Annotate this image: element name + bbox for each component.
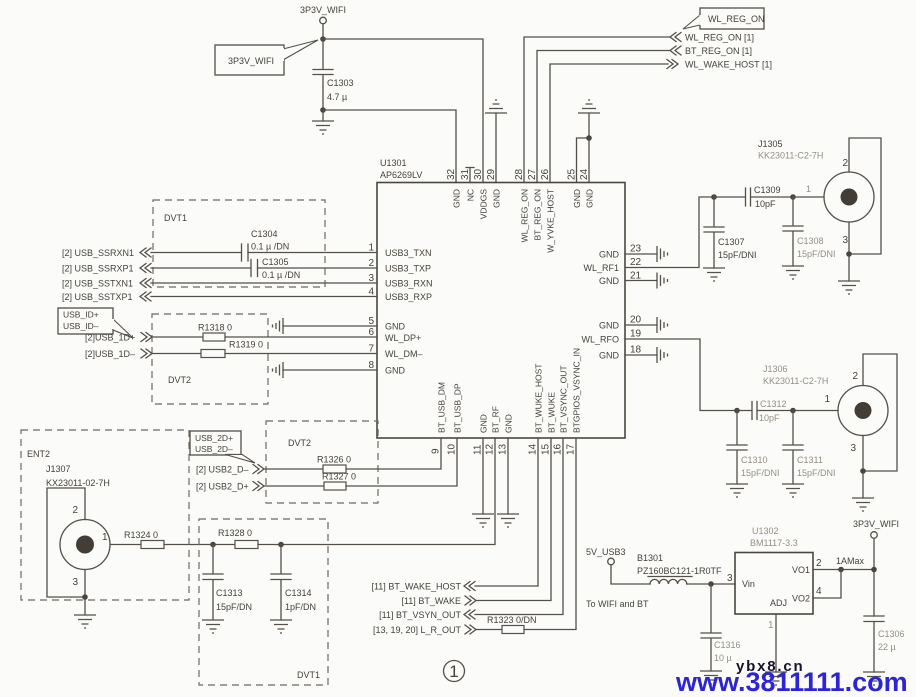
- svg-text:1AMax: 1AMax: [836, 556, 865, 566]
- junction C1313: [210, 542, 216, 548]
- ground J1307: [74, 615, 96, 628]
- svg-text:R1318 0: R1318 0: [198, 323, 232, 333]
- ground J1305: [838, 281, 860, 294]
- svg-text:15pF/DN: 15pF/DN: [216, 602, 252, 612]
- svg-text:U1301: U1301: [380, 158, 407, 168]
- wire row7 right: [225, 353, 377, 355]
- svg-text:[13, 19, 20] L_R_OUT: [13, 19, 20] L_R_OUT: [373, 625, 462, 635]
- ENT2 dashed box: [21, 430, 189, 600]
- svg-text:R1327 0: R1327 0: [322, 472, 356, 482]
- callout 3P3V_WIFI box: [215, 40, 318, 75]
- svg-text:29: 29: [486, 168, 497, 180]
- port arrow USB_SSRXP1: [140, 264, 151, 273]
- junction Vin node: [708, 581, 714, 587]
- DVT1 dashed box bottom: [199, 519, 328, 685]
- ground pin13: [497, 438, 519, 527]
- terminal 5V_USB3: [608, 558, 615, 565]
- svg-text:5V_USB3: 5V_USB3: [586, 547, 626, 557]
- svg-text:DVT2: DVT2: [168, 375, 191, 385]
- svg-text:11: 11: [473, 444, 484, 455]
- svg-text:WL_REG_ON: WL_REG_ON: [708, 14, 765, 24]
- callout USB_2D box: [190, 431, 255, 463]
- port arrow USB_1D-: [141, 349, 152, 358]
- ground pin5: [273, 318, 378, 334]
- ground under C1307: [703, 268, 725, 281]
- port arrow USB2_D+: [253, 482, 264, 491]
- connector J1306: [763, 364, 888, 454]
- capacitor C1310: [727, 411, 780, 485]
- svg-text:U1302: U1302: [752, 526, 779, 536]
- port arrow L_R_OUT: [465, 625, 476, 634]
- svg-text:15pF/DNI: 15pF/DNI: [797, 249, 836, 259]
- svg-text:[2] USB_SSRXN1: [2] USB_SSRXN1: [62, 248, 134, 258]
- junction 3P3V out: [871, 567, 877, 573]
- resistor R1327: [322, 472, 356, 491]
- svg-text:10: 10: [447, 443, 458, 455]
- junction J1306 pin3: [860, 468, 866, 474]
- wire row6 right: [225, 336, 377, 338]
- svg-text:WL_RFO: WL_RFO: [581, 335, 619, 345]
- svg-text:1: 1: [806, 184, 811, 194]
- capacitor C1306: [864, 616, 905, 672]
- svg-text:WL_DP+: WL_DP+: [385, 333, 421, 343]
- svg-text:2: 2: [72, 505, 78, 516]
- ground pin23: [625, 246, 668, 262]
- svg-text:www.3811111.com: www.3811111.com: [675, 667, 908, 697]
- wire 3P3V to pin30: [323, 39, 483, 183]
- svg-text:GND: GND: [599, 250, 620, 260]
- DVT1 dashed box top: [153, 200, 325, 287]
- svg-text:3P3V_WIFI: 3P3V_WIFI: [300, 5, 346, 15]
- wire pin25 jog: [577, 138, 590, 183]
- svg-text:1: 1: [824, 394, 830, 405]
- svg-text:3: 3: [727, 573, 733, 584]
- svg-text:USB_ID–: USB_ID–: [63, 321, 99, 331]
- svg-text:31: 31: [460, 168, 471, 180]
- svg-text:15pF/DNI: 15pF/DNI: [797, 468, 836, 478]
- svg-text:[2]USB_1D–: [2]USB_1D–: [85, 349, 135, 359]
- wire USB2_D- left: [264, 468, 323, 470]
- svg-text:[2] USB2_D–: [2] USB2_D–: [196, 465, 249, 475]
- svg-text:DVT1: DVT1: [164, 213, 187, 223]
- ground above pin24: [578, 100, 600, 113]
- wire 3P3V out vertical: [873, 539, 875, 617]
- svg-text:9: 9: [431, 448, 442, 454]
- svg-text:AP6269LV: AP6269LV: [380, 170, 422, 180]
- svg-text:GND: GND: [572, 189, 582, 208]
- svg-text:C1316: C1316: [714, 640, 741, 650]
- svg-text:GND: GND: [385, 366, 406, 376]
- wire ADJ to ground: [775, 614, 777, 672]
- junction VO1 VO2 tie: [838, 567, 844, 573]
- wire B1301 to Vin: [687, 583, 735, 585]
- svg-text:30: 30: [473, 168, 484, 180]
- svg-text:2: 2: [816, 558, 822, 569]
- svg-text:GND: GND: [585, 189, 595, 208]
- capacitor C1304: [242, 229, 290, 261]
- svg-text:BT_REG_ON [1]: BT_REG_ON [1]: [685, 46, 752, 56]
- wire row6 left: [152, 336, 203, 338]
- svg-text:1: 1: [449, 662, 458, 681]
- port arrow USB_SSRXN1: [140, 248, 151, 257]
- junction pins24-25: [586, 135, 592, 141]
- svg-text:1: 1: [768, 620, 774, 631]
- ground under C1316: [700, 671, 722, 684]
- wire row3: [151, 282, 377, 284]
- svg-text:10pF: 10pF: [759, 413, 780, 423]
- svg-text:VO2: VO2: [792, 594, 810, 604]
- connector J1307: [46, 464, 110, 588]
- wire L_R_OUT left: [476, 629, 502, 631]
- svg-text:1pF/DN: 1pF/DN: [285, 602, 316, 612]
- resistor R1326: [317, 455, 351, 474]
- DVT2 dashed box mid: [152, 314, 268, 404]
- port arrow WL_WAKE_HOST: [667, 60, 678, 69]
- svg-text:18: 18: [630, 345, 642, 356]
- svg-text:28: 28: [514, 168, 525, 180]
- ferrite bead B1301: [637, 553, 722, 584]
- wire row7 left: [152, 353, 201, 355]
- wire 5V_USB3 to B1301: [611, 565, 650, 584]
- junction J1307 pin3: [82, 594, 88, 600]
- svg-text:32: 32: [446, 168, 457, 180]
- junction C1312 left: [734, 408, 740, 414]
- svg-text:23: 23: [630, 244, 642, 255]
- svg-text:R1319 0: R1319 0: [229, 340, 263, 350]
- svg-text:C1312: C1312: [760, 399, 787, 409]
- capacitor C1313: [203, 545, 252, 621]
- svg-text:USB3_TXP: USB3_TXP: [385, 264, 431, 274]
- svg-text:GND: GND: [599, 276, 620, 286]
- ground pin20: [625, 317, 668, 333]
- svg-text:20: 20: [630, 315, 642, 326]
- svg-text:USB_2D+: USB_2D+: [195, 433, 233, 443]
- capacitor C1312: [737, 399, 793, 423]
- svg-text:R1323 0/DN: R1323 0/DN: [487, 615, 537, 625]
- ground J1306: [852, 498, 874, 511]
- capacitor C1314: [271, 545, 316, 621]
- wire to J1306 pin1: [793, 410, 838, 412]
- svg-text:C1309: C1309: [754, 185, 781, 195]
- svg-text:VDDGS: VDDGS: [479, 189, 489, 220]
- svg-text:[11] BT_VSYN_OUT: [11] BT_VSYN_OUT: [379, 610, 461, 620]
- svg-text:NC: NC: [466, 189, 476, 201]
- ground under C1311: [782, 484, 804, 497]
- svg-text:15: 15: [541, 443, 552, 455]
- svg-text:26: 26: [540, 168, 551, 180]
- wire pin28 WL_REG_ON: [524, 37, 670, 183]
- wire pin12 BT_RF: [281, 438, 495, 545]
- wire pin26 WL_WAKE_HOST: [550, 64, 668, 183]
- svg-text:2: 2: [852, 371, 858, 382]
- svg-text:J1305: J1305: [758, 139, 783, 149]
- regulator U1302: [727, 526, 822, 631]
- junction A: [320, 36, 326, 42]
- svg-text:0.1 µ /DN: 0.1 µ /DN: [262, 270, 300, 280]
- wire gnd to pin32: [323, 110, 456, 183]
- svg-text:BTGPIOS_VSYNC_IN: BTGPIOS_VSYNC_IN: [572, 348, 582, 433]
- wire USB2_D- to pin9: [346, 438, 441, 469]
- wire pin27 BT_REG_ON: [537, 51, 670, 183]
- wire BT_WAKE_HOST to pin14: [475, 438, 538, 586]
- port arrow BT_WAKE: [465, 596, 476, 605]
- svg-text:R1324 0: R1324 0: [124, 530, 158, 540]
- wire R1328 to junction: [258, 544, 281, 546]
- port arrow USB_SSTXP1: [140, 292, 151, 301]
- wire BT_WAKE to pin15: [476, 438, 551, 601]
- svg-text:To WIFI and BT: To WIFI and BT: [586, 599, 649, 609]
- junction B: [320, 107, 326, 113]
- svg-text:25: 25: [567, 168, 578, 180]
- svg-text:BT_VSYNC_OUT: BT_VSYNC_OUT: [559, 365, 569, 433]
- svg-text:BT_WUKE_HOST: BT_WUKE_HOST: [534, 364, 544, 433]
- svg-text:10pF: 10pF: [755, 199, 776, 209]
- svg-text:2: 2: [842, 158, 848, 169]
- wire J1305 pin2 loop: [849, 138, 881, 254]
- svg-text:USB3_RXP: USB3_RXP: [385, 292, 432, 302]
- svg-text:C1308: C1308: [797, 236, 824, 246]
- svg-text:24: 24: [579, 168, 590, 180]
- svg-text:GND: GND: [599, 321, 620, 331]
- ground pin18: [625, 347, 668, 363]
- wire row4: [151, 296, 377, 298]
- svg-text:Vin: Vin: [742, 579, 755, 589]
- svg-text:4: 4: [816, 586, 822, 597]
- svg-text:GND: GND: [479, 414, 489, 433]
- svg-text:15pF/DNI: 15pF/DNI: [718, 250, 757, 260]
- svg-text:[2] USB_SSTXN1: [2] USB_SSTXN1: [62, 279, 133, 289]
- svg-text:1: 1: [102, 532, 108, 543]
- svg-text:C1306: C1306: [878, 629, 905, 639]
- wire R1323 to pin17: [524, 438, 576, 630]
- svg-text:C1311: C1311: [797, 455, 823, 465]
- junction C1309 right: [790, 194, 796, 200]
- connector J1305: [758, 139, 874, 246]
- wire row1 right: [248, 252, 377, 254]
- svg-text:BT_RF: BT_RF: [491, 406, 501, 433]
- svg-text:C1303: C1303: [327, 78, 354, 88]
- junction C1309 left: [711, 194, 717, 200]
- ground under C1308: [782, 266, 804, 279]
- port arrow BT_REG_ON: [670, 46, 681, 55]
- capacitor C1307: [704, 197, 757, 268]
- svg-text:C1304: C1304: [251, 229, 278, 239]
- wire BT_VSYN_OUT to pin16: [475, 438, 563, 615]
- capacitor C1316: [701, 584, 741, 671]
- wire J1307 pin2 loop: [47, 488, 85, 597]
- svg-text:C1305: C1305: [262, 257, 289, 267]
- svg-text:BM1117-3.3: BM1117-3.3: [750, 538, 798, 548]
- wire J1307 pin3: [84, 570, 86, 616]
- ground under C1313: [202, 620, 224, 633]
- wire pin19 WL_RFO: [625, 339, 737, 411]
- svg-text:3P3V_WIFI: 3P3V_WIFI: [228, 56, 274, 66]
- svg-text:J1307: J1307: [46, 464, 71, 474]
- svg-text:USB3_RXN: USB3_RXN: [385, 279, 433, 289]
- wire USB2_D+ to pin10: [346, 438, 457, 486]
- wire J1307 pin1: [110, 544, 141, 546]
- svg-text:W_YVKE_HOST: W_YVKE_HOST: [546, 189, 556, 253]
- resistor R1328: [218, 528, 258, 549]
- ground under C1310: [726, 484, 748, 497]
- svg-text:BT_REG_ON: BT_REG_ON: [533, 189, 543, 241]
- ground above pin29: [485, 100, 507, 183]
- resistor R1323: [487, 615, 537, 634]
- junction C1312 right: [790, 408, 796, 414]
- svg-text:USB3_TXN: USB3_TXN: [385, 248, 432, 258]
- svg-text:4.7 µ: 4.7 µ: [327, 92, 347, 102]
- svg-text:WL_REG_ON: WL_REG_ON: [520, 189, 530, 242]
- svg-text:GND: GND: [492, 189, 502, 208]
- svg-text:10 µ: 10 µ: [714, 653, 732, 663]
- svg-text:VO1: VO1: [792, 565, 810, 575]
- svg-text:GND: GND: [599, 351, 620, 361]
- svg-text:22: 22: [630, 257, 642, 268]
- resistor R1318: [198, 323, 232, 342]
- ground under C1314: [270, 620, 292, 633]
- capacitor C1309: [714, 185, 793, 209]
- svg-text:WL_DM–: WL_DM–: [385, 349, 423, 359]
- svg-text:GND: GND: [452, 189, 462, 208]
- wire to J1305 pin1: [793, 196, 824, 198]
- capacitor C1308: [783, 197, 836, 266]
- svg-text:[2] USB2_D+: [2] USB2_D+: [196, 482, 249, 492]
- junction C1314: [278, 542, 284, 548]
- svg-text:DVT2: DVT2: [288, 438, 311, 448]
- wire row1 left: [151, 252, 242, 254]
- ground under C1303: [312, 110, 334, 134]
- svg-text:3P3V_WIFI: 3P3V_WIFI: [853, 519, 899, 529]
- svg-text:C1307: C1307: [718, 237, 745, 247]
- svg-text:19: 19: [630, 329, 642, 340]
- svg-text:USB_ID+: USB_ID+: [63, 310, 99, 320]
- svg-text:WL_REG_ON [1]: WL_REG_ON [1]: [685, 33, 754, 43]
- svg-text:3: 3: [842, 235, 848, 246]
- port arrow BT_WAKE_HOST: [464, 582, 475, 591]
- svg-text:KX23011-02-7H: KX23011-02-7H: [46, 478, 110, 488]
- capacitor C1305: [251, 257, 300, 280]
- svg-text:[11] BT_WAKE: [11] BT_WAKE: [401, 596, 461, 606]
- svg-text:27: 27: [527, 168, 538, 180]
- ground ADJ: [765, 672, 787, 685]
- ground pin8: [273, 362, 378, 378]
- svg-text:[2] USB_SSRXP1: [2] USB_SSRXP1: [62, 264, 134, 274]
- callout WL_REG_ON box: [683, 8, 765, 29]
- wire J1306 pin3: [862, 436, 864, 499]
- wire row2 left: [151, 267, 251, 269]
- ground under C1306: [863, 672, 885, 685]
- svg-text:R1328 0: R1328 0: [218, 528, 252, 538]
- terminal 3P3V_WIFI: [320, 17, 327, 24]
- svg-text:BT_WUKE: BT_WUKE: [547, 392, 557, 433]
- svg-text:3: 3: [850, 443, 856, 454]
- svg-text:WL_RF1: WL_RF1: [583, 263, 619, 273]
- resistor R1319: [201, 340, 263, 358]
- svg-text:PZ160BC121-1R0TF: PZ160BC121-1R0TF: [637, 566, 722, 576]
- ground pin21: [625, 273, 668, 289]
- svg-text:B1301: B1301: [637, 553, 663, 563]
- op-amp U1301 body: [377, 183, 625, 439]
- svg-text:GND: GND: [385, 322, 406, 332]
- svg-text:16: 16: [553, 443, 564, 455]
- svg-text:17: 17: [566, 443, 577, 455]
- svg-text:WL_WAKE_HOST [1]: WL_WAKE_HOST [1]: [685, 60, 772, 70]
- port arrow USB_SSTXN1: [140, 279, 151, 288]
- svg-text:22 µ: 22 µ: [878, 642, 896, 652]
- wire R1324 to junction: [164, 544, 235, 546]
- svg-text:DVT1: DVT1: [297, 670, 320, 680]
- svg-text:[11] BT_WAKE_HOST: [11] BT_WAKE_HOST: [371, 582, 461, 592]
- capacitor C1303: [313, 39, 354, 110]
- port arrow BT_VSYN_OUT: [464, 610, 475, 619]
- svg-text:0.1 µ /DN: 0.1 µ /DN: [251, 242, 289, 252]
- svg-text:BT_USB_DM: BT_USB_DM: [437, 382, 447, 433]
- svg-text:[2]USB_1D+: [2]USB_1D+: [85, 333, 135, 343]
- svg-text:3: 3: [72, 577, 78, 588]
- wire row2 right: [258, 267, 378, 269]
- svg-text:12: 12: [485, 443, 496, 455]
- wire pin24: [588, 113, 590, 183]
- terminal 3P3V_WIFI out: [871, 532, 878, 539]
- wire VO2 jog: [813, 570, 841, 599]
- resistor R1324: [124, 530, 164, 549]
- svg-text:USB_2D–: USB_2D–: [195, 444, 233, 454]
- svg-text:14: 14: [528, 443, 539, 455]
- port arrow USB_1D+: [141, 333, 152, 342]
- callout USB_ID box: [58, 308, 133, 338]
- svg-text:C1314: C1314: [285, 588, 312, 598]
- svg-text:ADJ: ADJ: [770, 598, 787, 608]
- ground pin11: [472, 438, 494, 527]
- svg-text:KK23011-C2-7H: KK23011-C2-7H: [758, 151, 823, 161]
- wire VO1 to 3P3V node: [813, 569, 874, 571]
- svg-text:BT_USB_DP: BT_USB_DP: [453, 383, 463, 433]
- svg-text:C1310: C1310: [741, 455, 768, 465]
- port arrow USB2_D-: [253, 465, 264, 474]
- pin31 NC stub: [466, 168, 474, 183]
- wire J1306 pin2 loop: [863, 354, 897, 471]
- svg-text:C1313: C1313: [216, 588, 243, 598]
- capacitor C1311: [783, 411, 836, 485]
- wire USB2_D+ left: [264, 485, 324, 487]
- svg-text:13: 13: [498, 443, 509, 455]
- DVT2 dashed box lower: [266, 421, 378, 503]
- svg-text:KK23011-C2-7H: KK23011-C2-7H: [763, 376, 828, 386]
- svg-text:J1306: J1306: [763, 364, 788, 374]
- wire 3P3V terminal to junction: [322, 24, 324, 39]
- svg-text:GND: GND: [504, 414, 514, 433]
- svg-text:[2] USB_SSTXP1: [2] USB_SSTXP1: [62, 292, 133, 302]
- wire J1305 pin3: [848, 222, 850, 281]
- svg-text:15pF/DNI: 15pF/DNI: [741, 468, 780, 478]
- junction J1305 pin3: [846, 251, 852, 257]
- svg-text:R1326 0: R1326 0: [317, 455, 351, 465]
- port arrow WL_REG_ON: [670, 33, 681, 42]
- svg-text:ENT2: ENT2: [27, 449, 50, 459]
- wire pin22 WL_RF1: [625, 197, 714, 268]
- sheet number circle: [444, 661, 465, 682]
